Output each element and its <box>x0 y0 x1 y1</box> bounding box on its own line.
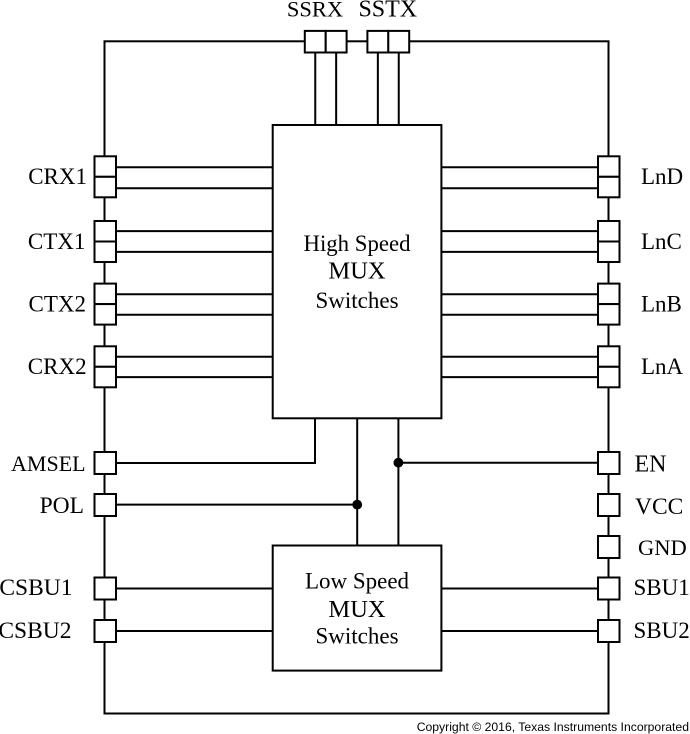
wire SSTX1 down <box>377 53 379 126</box>
pin CTX1 square 2 <box>95 242 117 263</box>
wire EN <box>398 462 598 464</box>
svg-text:Switches: Switches <box>315 288 398 313</box>
pin CTX1 square 1 <box>95 221 117 242</box>
pin LnD square 1 <box>598 156 620 177</box>
wire LnBa <box>441 293 598 295</box>
pin CTX2 square 2 <box>95 304 117 325</box>
svg-text:GND: GND <box>638 535 687 560</box>
svg-text:CRX1: CRX1 <box>28 164 87 189</box>
wire SBU1 <box>441 588 598 590</box>
wire LnAa <box>441 356 598 358</box>
block High Speed MUX Switches <box>273 125 442 418</box>
pin CRX1 square 2 <box>95 177 117 198</box>
svg-text:EN: EN <box>635 452 667 478</box>
pin LnC square 2 <box>598 242 620 263</box>
pin SSTX square 2 <box>388 31 409 53</box>
svg-text:MUX: MUX <box>328 596 385 623</box>
pin POL <box>95 494 117 516</box>
wire CSBU1 <box>116 588 273 590</box>
wire CRX1a <box>116 166 273 168</box>
svg-text:SSTX: SSTX <box>358 0 417 22</box>
block Low Speed MUX Switches <box>273 546 442 671</box>
svg-text:VCC: VCC <box>635 494 683 520</box>
pin GND <box>598 536 620 558</box>
wire CSBU2 <box>116 630 273 632</box>
pin LnB square 2 <box>598 304 620 325</box>
svg-text:CRX2: CRX2 <box>28 354 87 379</box>
pin LnA square 1 <box>598 346 620 367</box>
svg-text:SSRX: SSRX <box>287 0 343 21</box>
pin EN <box>598 452 620 474</box>
svg-text:MUX: MUX <box>328 258 385 285</box>
wire LnBb <box>441 314 598 316</box>
svg-text:CTX1: CTX1 <box>28 229 86 254</box>
wire LnAb <box>441 376 598 378</box>
chip boundary <box>105 41 609 713</box>
wire HS-LS link 2 <box>397 418 399 545</box>
wire LnDb <box>441 187 598 189</box>
pin CRX2 square 2 <box>95 367 117 388</box>
svg-text:POL: POL <box>40 493 84 519</box>
pin SSTX square 1 <box>367 31 388 53</box>
svg-text:CSBU2: CSBU2 <box>0 618 72 644</box>
wire CRX2a <box>116 356 273 358</box>
svg-text:Copyright © 2016, Texas Instru: Copyright © 2016, Texas Instruments Inco… <box>417 720 689 734</box>
pin LnA square 2 <box>598 367 620 388</box>
pin LnD square 2 <box>598 177 620 198</box>
svg-text:LnC: LnC <box>641 229 682 254</box>
wire AMSEL <box>116 418 315 463</box>
pin SBU2 <box>598 620 620 642</box>
junction dot EN <box>394 458 404 468</box>
svg-text:Switches: Switches <box>315 624 398 649</box>
wire SSRX1 down <box>314 53 316 126</box>
svg-text:High Speed: High Speed <box>303 231 411 256</box>
wire CTX2b <box>116 314 273 316</box>
wire HS-LS link 1 <box>356 418 358 545</box>
svg-text:SBU2: SBU2 <box>634 618 690 643</box>
pin SSRX square 1 <box>305 31 326 53</box>
pin SSRX square 2 <box>326 31 347 53</box>
svg-text:LnD: LnD <box>641 164 683 189</box>
svg-text:Low Speed: Low Speed <box>305 569 410 594</box>
pin CRX1 square 1 <box>95 156 117 177</box>
pin LnB square 1 <box>598 284 620 305</box>
pin LnC square 1 <box>598 221 620 242</box>
wire SBU2 <box>441 630 598 632</box>
pin CSBU1 <box>95 578 117 600</box>
junction dot POL <box>352 500 362 510</box>
wire CTX1b <box>116 251 273 253</box>
pin CTX2 square 1 <box>95 284 117 305</box>
block text Low Speed MUX Switches <box>305 569 410 649</box>
pin SBU1 <box>598 578 620 600</box>
wire CTX1a <box>116 230 273 232</box>
wire POL <box>116 504 357 506</box>
pin VCC <box>598 494 620 516</box>
block text High Speed MUX Switches <box>303 231 411 313</box>
pin CSBU2 <box>95 620 117 642</box>
wire LnDa <box>441 166 598 168</box>
svg-text:LnA: LnA <box>641 354 684 379</box>
wire LnCa <box>441 230 598 232</box>
svg-text:LnB: LnB <box>641 292 682 317</box>
pin AMSEL <box>95 452 117 474</box>
svg-text:CSBU1: CSBU1 <box>0 575 73 601</box>
wire SSTX2 down <box>398 53 400 126</box>
svg-text:AMSEL: AMSEL <box>11 451 86 476</box>
svg-text:CTX2: CTX2 <box>29 292 87 317</box>
wire SSRX2 down <box>335 53 337 126</box>
wire LnCb <box>441 251 598 253</box>
wire CRX2b <box>116 376 273 378</box>
wire CRX1b <box>116 187 273 189</box>
svg-text:SBU1: SBU1 <box>634 575 690 600</box>
pin CRX2 square 1 <box>95 346 117 367</box>
wire CTX2a <box>116 293 273 295</box>
